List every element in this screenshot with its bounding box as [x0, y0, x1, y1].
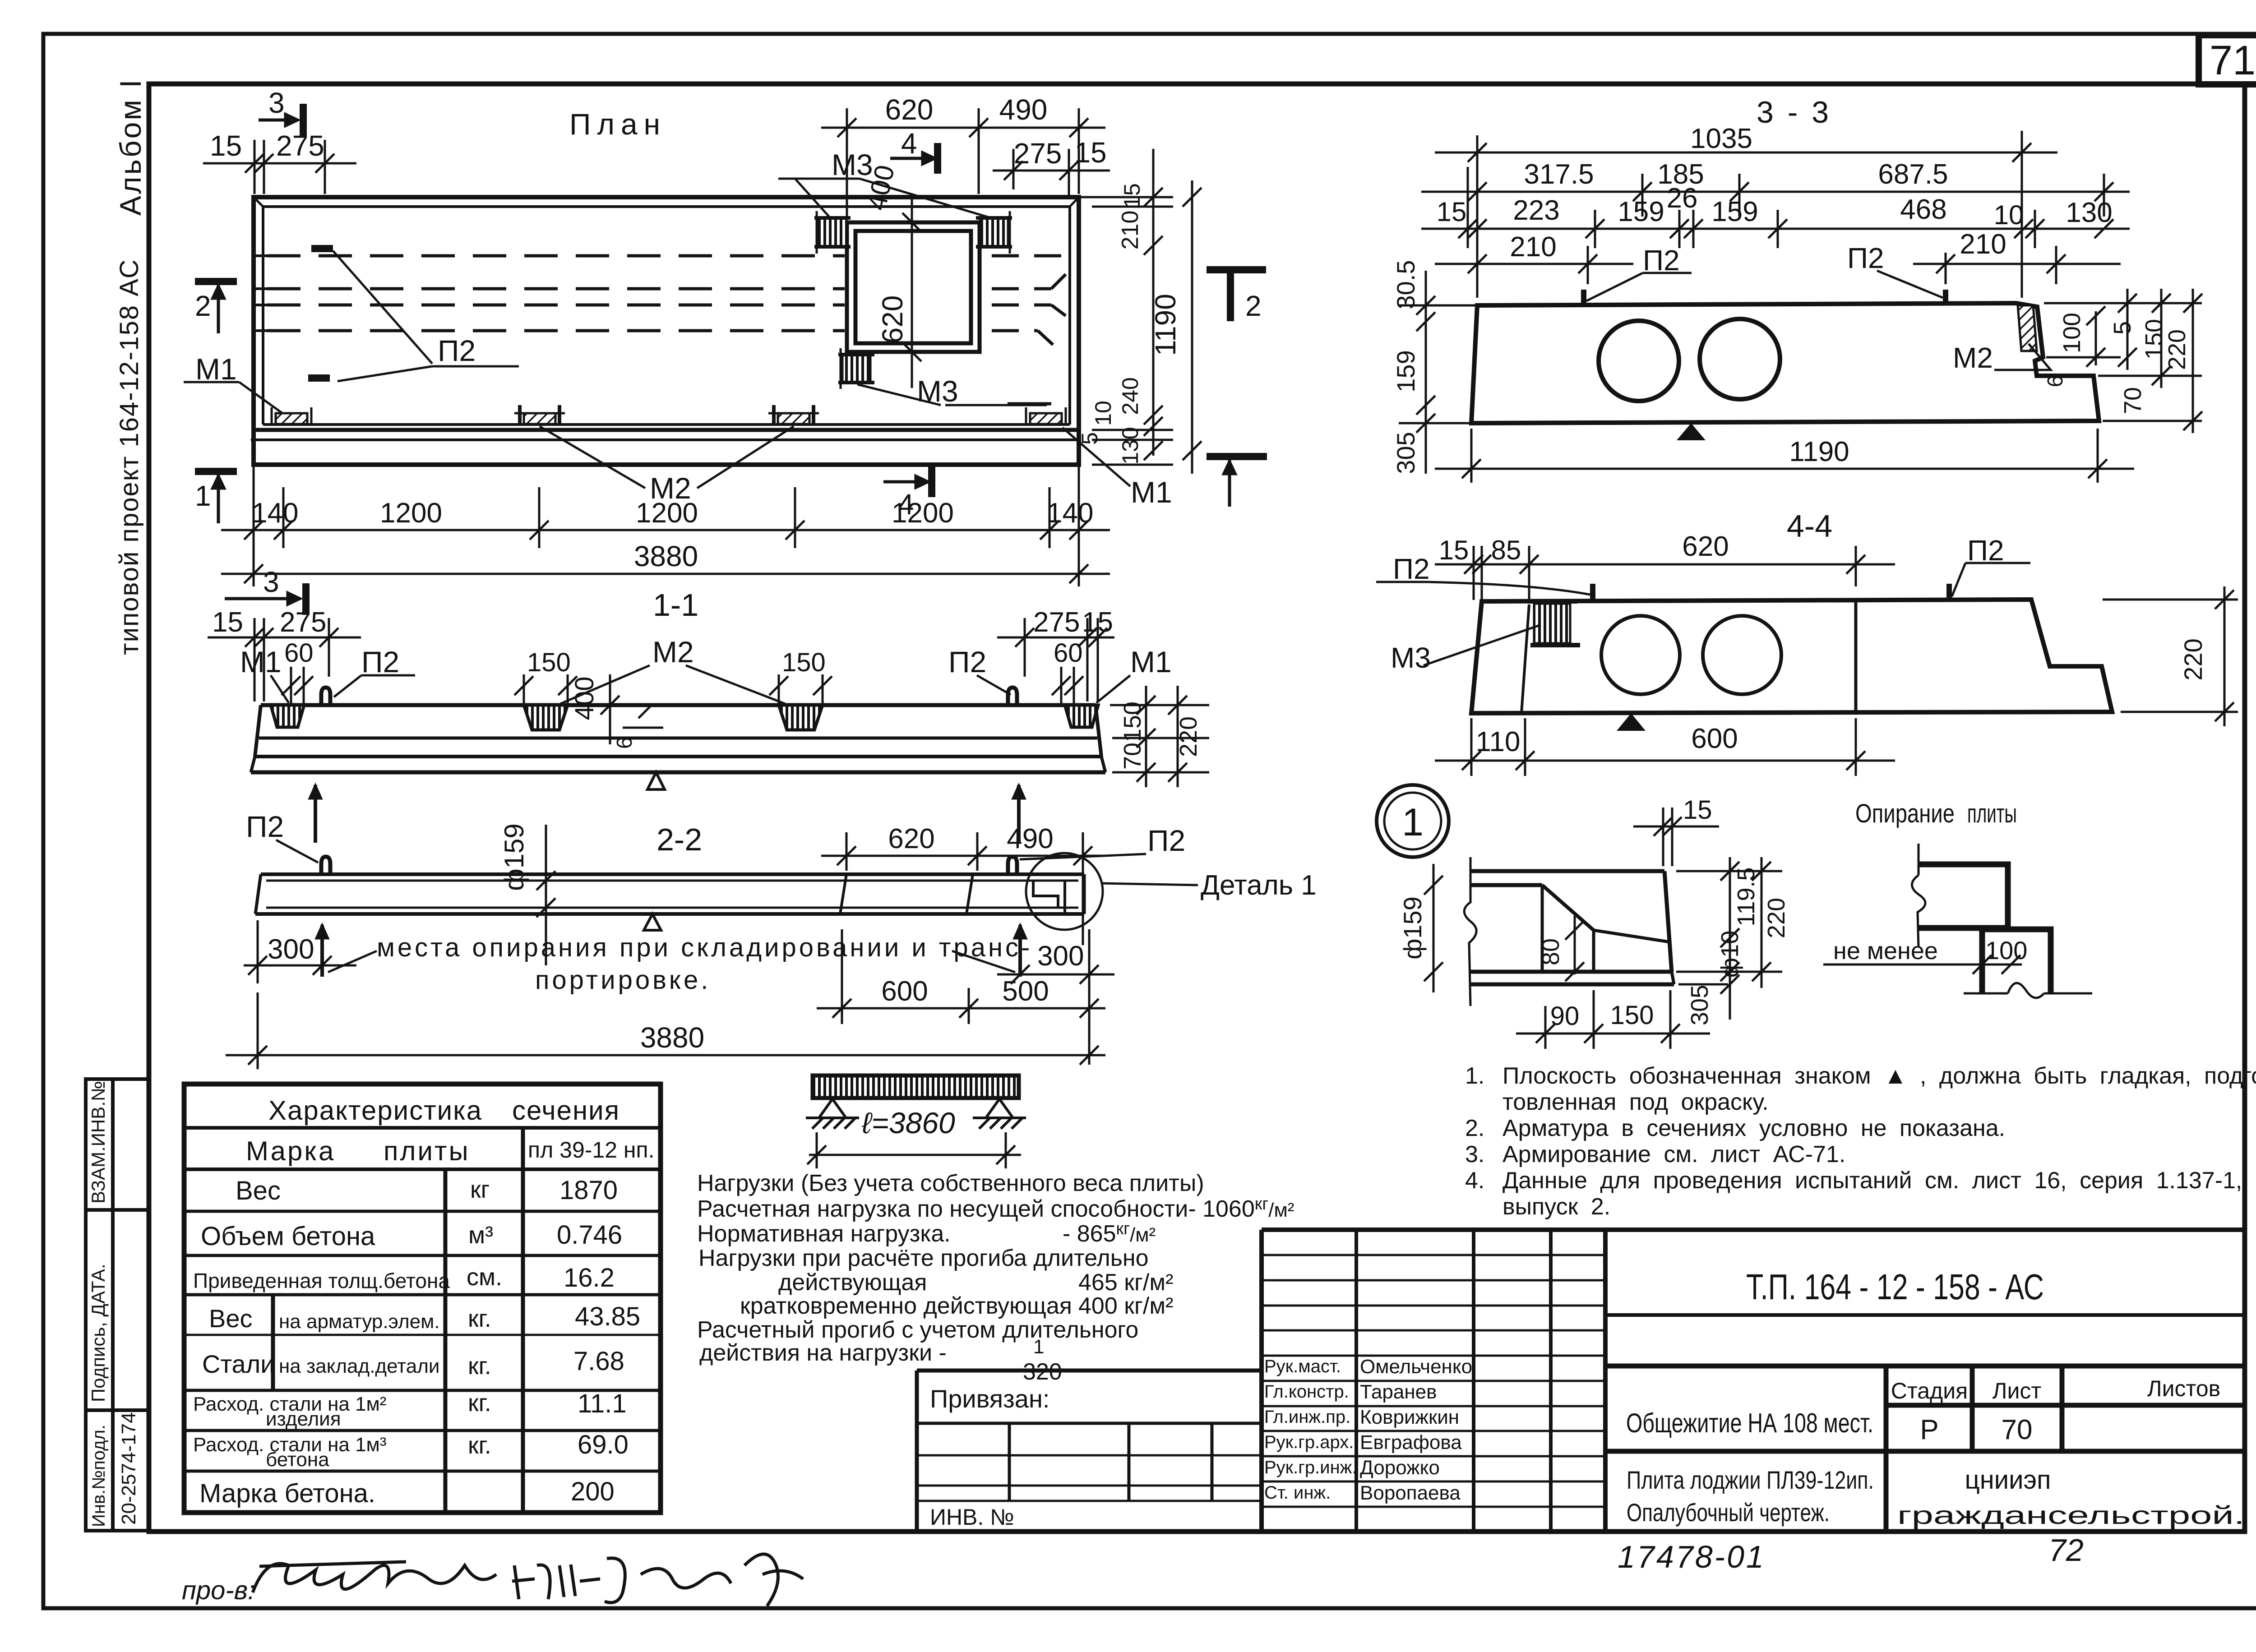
- svg-text:16.2: 16.2: [564, 1263, 615, 1292]
- svg-text:кг.: кг.: [468, 1305, 491, 1332]
- svg-text:1035: 1035: [1690, 123, 1752, 154]
- svg-text:Подпись, ДАТА.: Подпись, ДАТА.: [88, 1264, 109, 1402]
- dim row 1190 (3-3): [1435, 429, 2134, 483]
- 620 vertical dimension inside opening: [902, 198, 921, 388]
- svg-text:цнииэп: цнииэп: [1965, 1465, 2051, 1495]
- 150 dim left trapezoid (1-1): [514, 674, 577, 704]
- svg-text:Деталь 1: Деталь 1: [1201, 870, 1317, 901]
- void circle left (4-4): [1601, 616, 1680, 694]
- svg-text:15: 15: [212, 607, 243, 638]
- dim row 210 | 210 (3-3): [1435, 246, 2121, 284]
- leader to П2 label: [333, 251, 519, 381]
- M2 embedded plate mid-left: [514, 405, 565, 425]
- svg-text:Нагрузки (Без учета собственн: Нагрузки (Без учета собственного веса пл…: [697, 1170, 1204, 1196]
- svg-text:действия на нагрузки -: действия на нагрузки -: [699, 1340, 947, 1366]
- dim row 317.5|185|687.5 (3-3): [1421, 174, 2130, 217]
- svg-text:Т.П. 164 - 12 - 158 - АС: Т.П. 164 - 12 - 158 - АС: [1746, 1267, 2044, 1307]
- svg-text:Омельченко: Омельченко: [1360, 1356, 1472, 1378]
- svg-text:15: 15: [1439, 535, 1469, 565]
- svg-text:Листов: Листов: [2147, 1376, 2220, 1401]
- svg-text:210: 210: [1117, 211, 1143, 250]
- leaders M3 upper label: [778, 179, 1047, 405]
- svg-text:17478-01: 17478-01: [1618, 1539, 1766, 1574]
- svg-text:15: 15: [1683, 795, 1712, 825]
- svg-text:3880: 3880: [640, 1021, 704, 1054]
- svg-text:М2: М2: [652, 635, 694, 669]
- dimension row 3880 below plan: [221, 564, 1110, 583]
- M3 embedded plate top-left: [814, 211, 851, 254]
- svg-text:типовой проект 164-12-158 АС: типовой проект 164-12-158 АС: [115, 258, 144, 655]
- svg-text:80: 80: [1537, 938, 1564, 965]
- break line (detail 1): [1464, 857, 1476, 1006]
- svg-text:выпуск 2.: выпуск 2.: [1502, 1194, 1610, 1220]
- svg-text:200: 200: [571, 1477, 615, 1506]
- svg-text:П2: П2: [948, 645, 986, 678]
- section 4-4 slab body: [1471, 600, 2112, 713]
- svg-text:М1: М1: [240, 645, 282, 678]
- dim 15 (detail 1): [1633, 808, 1719, 866]
- load diagram right support: [973, 1099, 1026, 1129]
- stamp boxes bottom left: [86, 1079, 149, 1531]
- svg-text:140: 140: [252, 498, 298, 529]
- svg-text:П2: П2: [361, 645, 399, 678]
- svg-text:Ст. инж.: Ст. инж.: [1264, 1483, 1331, 1503]
- svg-text:620: 620: [888, 823, 934, 854]
- numbered notes: [1465, 1063, 2256, 1220]
- anchor trapezoid M1 left (1-1): [271, 705, 304, 727]
- svg-text:1190: 1190: [1789, 436, 1849, 467]
- svg-text:2-2: 2-2: [656, 822, 702, 857]
- svg-text:Евграфова: Евграфова: [1360, 1431, 1462, 1454]
- svg-text:ф10: ф10: [1716, 931, 1743, 978]
- dim row 15|85|620 (4-4): [1435, 546, 1895, 600]
- svg-text:1200: 1200: [636, 498, 698, 529]
- svg-text:69.0: 69.0: [578, 1430, 629, 1459]
- svg-text:П2: П2: [1847, 242, 1884, 274]
- svg-text:3 - 3: 3 - 3: [1757, 95, 1831, 129]
- dim 300 left (2-2): [244, 920, 356, 983]
- svg-text:220: 220: [1763, 898, 1790, 938]
- svg-text:500: 500: [1002, 976, 1049, 1007]
- svg-text:Привязан:: Привязан:: [930, 1384, 1049, 1413]
- svg-text:портировке.: портировке.: [535, 965, 711, 995]
- svg-text:275: 275: [276, 129, 324, 162]
- section marker 1 (right, arrow up): [1207, 457, 1267, 507]
- svg-text:275: 275: [1014, 137, 1062, 170]
- svg-text:Нагрузки при расчёте прогиба: Нагрузки при расчёте прогиба длительно: [698, 1245, 1149, 1271]
- svg-text:620: 620: [876, 295, 909, 344]
- svg-text:30.5: 30.5: [1392, 260, 1420, 309]
- lift arrows (2-2): [315, 923, 1027, 977]
- П2 hook left (1-1): [321, 688, 330, 705]
- svg-text:товленная под окраску.: товленная под окраску.: [1502, 1089, 1769, 1115]
- svg-text:4: 4: [901, 127, 917, 160]
- characteristics table frame: [184, 1084, 661, 1513]
- support triangle (2-2): [644, 914, 661, 930]
- П2 pin left (4-4): [1590, 584, 1595, 600]
- dim 60 (1-1 left): [282, 667, 313, 704]
- не менее 100 dim (опирание): [1823, 955, 2022, 974]
- svg-text:100: 100: [1985, 936, 2027, 964]
- svg-text:15: 15: [1437, 197, 1467, 227]
- svg-text:Рук.маст.: Рук.маст.: [1264, 1357, 1341, 1376]
- M1 embedded plate bottom left (hatched): [272, 407, 311, 425]
- П2 pin right (4-4): [1946, 584, 1952, 600]
- П2 pin left (3-3): [1581, 290, 1586, 305]
- svg-text:490: 490: [999, 93, 1048, 126]
- svg-text:П2: П2: [438, 334, 476, 367]
- svg-text:10: 10: [1091, 401, 1116, 426]
- svg-text:60: 60: [284, 638, 314, 668]
- svg-text:400 кг/м²: 400 кг/м²: [1078, 1293, 1173, 1319]
- svg-text:220: 220: [2179, 638, 2207, 680]
- svg-text:Коврижкин: Коврижкин: [1360, 1406, 1459, 1428]
- right dims 119.5/ф10/220/305 (detail 1): [1676, 857, 1782, 1020]
- title block frame: [1262, 1230, 2245, 1532]
- svg-text:72: 72: [2048, 1532, 2084, 1568]
- svg-text:150: 150: [1119, 701, 1146, 742]
- svg-text:0.746: 0.746: [557, 1220, 622, 1250]
- 1190 overall vertical dim right of plan: [1183, 180, 1202, 474]
- svg-text:1870: 1870: [559, 1176, 618, 1205]
- svg-text:Стадия: Стадия: [1891, 1378, 1968, 1403]
- svg-text:159: 159: [1392, 350, 1420, 392]
- svg-text:140: 140: [1047, 498, 1093, 529]
- svg-text:Марка бетона.: Марка бетона.: [199, 1479, 375, 1508]
- section marker 3 (1-1): [225, 583, 306, 615]
- svg-text:Р: Р: [1920, 1414, 1938, 1445]
- dim 220 right (4-4): [2103, 586, 2238, 726]
- svg-text:изделия: изделия: [266, 1408, 341, 1430]
- svg-text:300: 300: [268, 934, 314, 965]
- svg-text:Рук.гр.арх.: Рук.гр.арх.: [1264, 1432, 1354, 1452]
- svg-text:1190: 1190: [1149, 294, 1182, 356]
- svg-text:П2: П2: [1393, 553, 1430, 585]
- dimension row 275|15 top right: [993, 149, 1110, 198]
- ф159 dim (detail 1): [1424, 864, 1443, 992]
- lift arrows below slab (1-1): [308, 783, 1026, 843]
- svg-text:15: 15: [1074, 136, 1106, 169]
- svg-text:100: 100: [2058, 313, 2085, 353]
- svg-text:Воропаева: Воропаева: [1360, 1482, 1461, 1504]
- svg-text:не менее: не менее: [1833, 937, 1938, 964]
- svg-text:сечения: сечения: [512, 1095, 620, 1126]
- svg-text:Приведенная толщ.бетона: Приведенная толщ.бетона: [193, 1269, 450, 1292]
- svg-text:60: 60: [1054, 638, 1083, 668]
- support triangle (4-4): [1617, 713, 1646, 731]
- svg-text:Опирание: Опирание: [1855, 799, 1955, 828]
- dimension row 140|1200|1200|1200|140 below plan: [221, 456, 1110, 586]
- svg-text:действующая: действующая: [778, 1269, 927, 1296]
- svg-text:- 865кг/м²: - 865кг/м²: [1063, 1219, 1156, 1247]
- svg-text:43.85: 43.85: [575, 1302, 640, 1331]
- svg-text:кратковременно действующая: кратковременно действующая: [740, 1293, 1072, 1319]
- svg-text:плиты: плиты: [384, 1136, 470, 1166]
- svg-text:130: 130: [1118, 427, 1143, 464]
- svg-text:М1: М1: [1131, 475, 1172, 509]
- support triangle (3-3): [1677, 423, 1706, 440]
- svg-text:70: 70: [2002, 1414, 2033, 1445]
- wall tick marks at void lines (plan): [254, 256, 275, 331]
- svg-text:Плита лоджии ПЛ39-12ип.: Плита лоджии ПЛ39-12ип.: [1627, 1466, 1874, 1494]
- svg-text:М1: М1: [1130, 645, 1172, 678]
- svg-text:110: 110: [1476, 726, 1521, 757]
- right vertical dims 100/5/150/220/6/70 (3-3): [2044, 289, 2202, 433]
- M1 embedded plate bottom right: [1026, 407, 1066, 425]
- svg-text:Альбом I: Альбом I: [114, 78, 147, 216]
- section marker 1 (left): [195, 471, 237, 523]
- svg-text:ИНВ. №: ИНВ. №: [930, 1504, 1014, 1530]
- page number box 71: [2199, 35, 2256, 84]
- svg-text:на арматур.элем.: на арматур.элем.: [279, 1311, 440, 1333]
- inner edge line (4-4): [1521, 605, 1529, 713]
- П2 hook right (1-1): [1008, 688, 1017, 705]
- section 3-3 slab body: [1471, 303, 2099, 423]
- M2 embedded plate mid-right: [768, 405, 819, 425]
- svg-text:Арматура в сечениях условн: Арматура в сечениях условно не показана.: [1502, 1115, 2005, 1141]
- svg-text:План: План: [569, 107, 666, 141]
- loads text block: [697, 1170, 1294, 1385]
- load diagram span dim: [807, 1132, 1021, 1168]
- svg-text:Армирование см. лист А: Армирование см. лист АС-71.: [1502, 1141, 1845, 1167]
- svg-text:см.: см.: [467, 1264, 502, 1291]
- svg-text:305: 305: [1686, 985, 1713, 1025]
- svg-text:кг.: кг.: [468, 1389, 491, 1417]
- section marker 4 (bottom): [883, 466, 932, 497]
- 150 dim right trapezoid (1-1): [769, 674, 832, 704]
- signature rows: [1264, 1357, 1357, 1503]
- svg-text:1200: 1200: [380, 498, 442, 529]
- 400 vertical dim (1-1): [601, 674, 619, 744]
- section marker 4 (top): [890, 143, 938, 174]
- svg-text:Расчетная нагрузка по несущей: Расчетная нагрузка по несущей способност…: [697, 1195, 1294, 1222]
- section 1-1 slab profile: [251, 705, 1105, 772]
- ф159 centerline and label (2-2): [536, 825, 555, 965]
- svg-text:ф159: ф159: [1398, 896, 1427, 960]
- anchor trapezoid M2 mid-right (1-1): [779, 705, 823, 730]
- right side dims 150/70/220 (1-1): [1110, 686, 1209, 787]
- svg-text:6: 6: [2043, 375, 2067, 388]
- dim row 15|223|159|26|159|468|10|130 (3-3): [1421, 167, 2130, 248]
- svg-text:223: 223: [1513, 195, 1559, 226]
- svg-text:70: 70: [1119, 743, 1146, 770]
- opening in plan: [847, 222, 980, 352]
- svg-text:11.1: 11.1: [578, 1389, 627, 1418]
- svg-text:468: 468: [1900, 194, 1946, 225]
- svg-text:305: 305: [1392, 432, 1420, 474]
- svg-text:4-4: 4-4: [1787, 508, 1832, 544]
- svg-text:Инв.№подл.: Инв.№подл.: [89, 1425, 109, 1527]
- slab end (опирание): [1912, 844, 2008, 947]
- svg-text:85: 85: [1491, 535, 1521, 565]
- svg-text:Нормативная нагрузка.: Нормативная нагрузка.: [697, 1221, 951, 1247]
- void circle right (3-3): [1700, 319, 1780, 399]
- svg-text:Стали: Стали: [202, 1350, 275, 1378]
- svg-text:150: 150: [527, 648, 571, 677]
- svg-text:П2: П2: [1147, 824, 1185, 857]
- detail 1 marker circle: [1377, 785, 1449, 857]
- svg-text:кг.: кг.: [468, 1352, 491, 1380]
- svg-text:места опирания при складиро: места опирания при складировании и транс…: [377, 933, 1032, 962]
- svg-text:М1: М1: [195, 352, 237, 386]
- svg-text:П2: П2: [1643, 244, 1680, 277]
- svg-text:317.5: 317.5: [1524, 159, 1594, 190]
- svg-text:15: 15: [210, 129, 242, 162]
- void circle right (4-4): [1703, 616, 1781, 694]
- right side vertical dim chain of plan: [1079, 149, 1173, 465]
- dim row 600|500 (2-2): [817, 929, 1105, 1024]
- support triangle (1-1): [647, 772, 665, 789]
- svg-text:Характеристика: Характеристика: [268, 1095, 482, 1126]
- svg-text:М2: М2: [1953, 341, 1993, 374]
- svg-text:26: 26: [1667, 183, 1698, 214]
- handwritten signature scrawl: [253, 1554, 803, 1606]
- svg-text:210: 210: [1510, 231, 1556, 263]
- dim row 620|490 (2-2): [821, 832, 1105, 945]
- П2 hook left (2-2): [321, 857, 330, 874]
- dim row 110|600 (4-4): [1435, 718, 1895, 776]
- svg-text:620: 620: [885, 93, 934, 126]
- svg-text:6: 6: [613, 737, 637, 749]
- 6 small dim (1-1): [623, 705, 663, 738]
- svg-text:7.68: 7.68: [573, 1347, 624, 1376]
- section 2-2 slab profile: [255, 874, 1084, 914]
- svg-text:ВЗАМ.ИНВ.№: ВЗАМ.ИНВ.№: [88, 1081, 109, 1204]
- svg-text:бетона: бетона: [266, 1449, 329, 1471]
- svg-text:15: 15: [1119, 183, 1145, 208]
- svg-text:159: 159: [1618, 196, 1664, 227]
- svg-text:300: 300: [1037, 941, 1084, 972]
- svg-text:Объем бетона: Объем бетона: [201, 1222, 375, 1251]
- M3 embedded plate bottom-left: [838, 348, 874, 389]
- Деталь 1 circle (2-2): [1026, 853, 1103, 930]
- svg-text:2.: 2.: [1465, 1115, 1484, 1141]
- dim 300 right (2-2): [997, 929, 1114, 1065]
- svg-text:240: 240: [1118, 377, 1143, 415]
- leaders to storage note (2-2): [328, 951, 1015, 972]
- svg-text:600: 600: [1691, 723, 1738, 754]
- M3 embedded plate top-right: [976, 211, 1012, 254]
- svg-text:ℓ=3860: ℓ=3860: [861, 1106, 955, 1140]
- wall support (опирание): [1964, 929, 2092, 998]
- 80 dim (detail 1): [1565, 916, 1584, 981]
- svg-text:90: 90: [1550, 1001, 1580, 1031]
- svg-text:4: 4: [898, 488, 914, 521]
- dimension row 620|490 above opening: [821, 108, 1105, 217]
- svg-text:Гл.констр.: Гл.констр.: [1264, 1382, 1349, 1402]
- svg-text:2: 2: [1245, 290, 1262, 322]
- detail 1 drawing body: [1470, 871, 1674, 984]
- svg-text:150: 150: [782, 648, 826, 677]
- dim 60 (1-1 right): [1052, 667, 1083, 704]
- dim row 3880 (2-2): [226, 992, 1105, 1069]
- svg-text:220: 220: [1175, 716, 1202, 757]
- svg-text:Гл.инж.пр.: Гл.инж.пр.: [1264, 1407, 1350, 1427]
- svg-text:М3: М3: [917, 374, 958, 408]
- М3 hatched block (4-4): [1528, 601, 1580, 645]
- svg-text:кг: кг: [470, 1176, 490, 1203]
- svg-text:Марка: Марка: [246, 1136, 335, 1166]
- bottom dims 90|150 (detail 1): [1516, 990, 1710, 1049]
- svg-text:Данные для проведения исп: Данные для проведения испытаний см. лист…: [1502, 1167, 2242, 1194]
- dimension row 15|275 top left: [203, 140, 356, 194]
- svg-text:4.: 4.: [1465, 1167, 1484, 1194]
- svg-text:Рук.гр.инж.: Рук.гр.инж.: [1264, 1458, 1357, 1477]
- svg-text:130: 130: [2066, 197, 2112, 228]
- svg-text:м³: м³: [468, 1222, 493, 1249]
- svg-text:71: 71: [2210, 37, 2256, 83]
- svg-text:М3: М3: [832, 148, 873, 181]
- load diagram beam: [813, 1075, 1019, 1098]
- svg-text:плиты: плиты: [1967, 799, 2017, 828]
- svg-text:10: 10: [1994, 200, 2024, 230]
- svg-text:159: 159: [1711, 196, 1758, 227]
- svg-text:119.5: 119.5: [1733, 867, 1760, 926]
- anchor trapezoid M2 mid-left (1-1): [524, 705, 568, 730]
- left vertical dims 30.5/159/305 (3-3): [1399, 271, 1484, 474]
- dim row 275|15 (1-1 right): [997, 618, 1114, 701]
- svg-text:1: 1: [1402, 801, 1424, 844]
- svg-text:Таранев: Таранев: [1360, 1381, 1437, 1403]
- svg-text:5: 5: [2109, 321, 2136, 335]
- svg-text:кг.: кг.: [468, 1432, 491, 1459]
- svg-text:275: 275: [280, 607, 326, 638]
- plan slab outline: [251, 197, 1080, 465]
- section marker 2 (right): [1207, 270, 1266, 321]
- svg-text:Вес: Вес: [209, 1304, 253, 1333]
- svg-text:на заклад.детали: на заклад.детали: [279, 1355, 440, 1377]
- svg-text:465 кг/м²: 465 кг/м²: [1078, 1269, 1173, 1296]
- svg-text:пл 39-12 нп.: пл 39-12 нп.: [528, 1137, 655, 1163]
- svg-text:Лист: Лист: [1992, 1378, 2042, 1403]
- svg-text:210: 210: [1960, 229, 2006, 260]
- svg-text:ф159: ф159: [499, 823, 529, 891]
- П2 hook right (2-2): [1008, 857, 1017, 874]
- svg-text:2: 2: [195, 290, 211, 322]
- svg-text:Плоскость обозначенная знако: Плоскость обозначенная знаком ▲ , должна…: [1502, 1063, 2256, 1089]
- svg-text:Дорожко: Дорожко: [1360, 1457, 1440, 1479]
- svg-text:220: 220: [2164, 329, 2191, 370]
- dim row 1035 (3-3): [1435, 131, 2057, 298]
- section marker 2 (left): [195, 281, 237, 333]
- dim row 15|275 (1-1 left): [208, 618, 361, 701]
- svg-text:М3: М3: [1391, 641, 1431, 674]
- section marker 3 (top left): [259, 104, 303, 136]
- anchor trapezoid M1 right (1-1): [1065, 705, 1098, 727]
- svg-text:граждансельстрой.: граждансельстрой.: [1897, 1501, 2245, 1529]
- plan hidden void dashed lines: [267, 256, 1066, 404]
- svg-text:Общежитие НА 108 мест.: Общежитие НА 108 мест.: [1626, 1408, 1873, 1438]
- svg-text:3880: 3880: [634, 540, 698, 572]
- svg-text:про-в:: про-в:: [182, 1576, 255, 1605]
- svg-text:3: 3: [268, 87, 285, 119]
- svg-text:1: 1: [195, 480, 211, 512]
- svg-text:687.5: 687.5: [1878, 159, 1948, 190]
- svg-text:15: 15: [1082, 607, 1113, 638]
- svg-text:490: 490: [1007, 823, 1053, 854]
- load diagram left support: [806, 1099, 859, 1129]
- М2 hatched plate (3-3): [2018, 305, 2037, 351]
- svg-text:П2: П2: [1967, 534, 2004, 567]
- svg-text:400: 400: [570, 677, 599, 720]
- svg-text:1: 1: [1033, 1336, 1044, 1358]
- svg-text:3: 3: [263, 566, 279, 598]
- svg-text:1-1: 1-1: [653, 587, 698, 623]
- svg-text:5: 5: [1077, 432, 1102, 445]
- svg-text:275: 275: [1033, 607, 1080, 638]
- svg-text:150: 150: [1610, 1001, 1654, 1030]
- привязан box: [917, 1371, 1263, 1532]
